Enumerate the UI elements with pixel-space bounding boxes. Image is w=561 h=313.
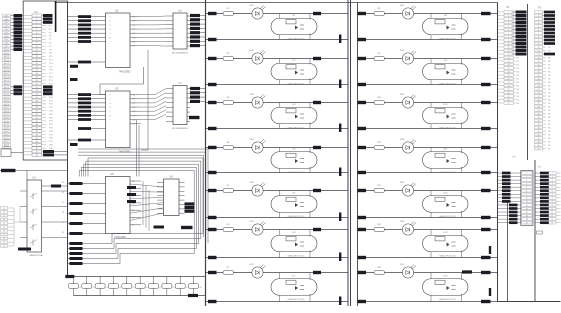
svg-text:Q6: Q6	[133, 41, 135, 43]
svg-text:NC: NC	[517, 68, 520, 70]
svg-text:NC: NC	[548, 61, 551, 63]
svg-text:NC: NC	[517, 96, 520, 98]
svg-text:U5: U5	[110, 172, 114, 176]
svg-text:T8: T8	[3, 238, 5, 240]
svg-text:13: 13	[551, 215, 553, 217]
svg-text:15: 15	[537, 61, 539, 63]
svg-text:DS6: DS6	[400, 221, 405, 223]
svg-text:8: 8	[508, 36, 509, 38]
svg-text:AD26: AD26	[4, 103, 10, 106]
svg-text:T1: T1	[3, 212, 5, 214]
svg-text:R2: R2	[227, 53, 231, 55]
svg-text:AD28: AD28	[4, 110, 10, 113]
svg-text:11: 11	[508, 47, 510, 49]
svg-text:13: 13	[36, 56, 38, 58]
svg-text:27: 27	[537, 103, 539, 105]
svg-text:19: 19	[507, 75, 509, 77]
svg-text:AD18: AD18	[4, 76, 10, 79]
svg-text:C4: C4	[119, 287, 121, 289]
svg-text:36: 36	[537, 134, 539, 136]
svg-text:1: 1	[538, 12, 539, 14]
svg-text:R6: R6	[227, 224, 231, 226]
svg-text:DS2: DS2	[400, 50, 405, 52]
svg-text:13: 13	[507, 54, 509, 56]
svg-text:U8: U8	[169, 176, 173, 179]
svg-text:7: 7	[36, 36, 37, 38]
svg-text:NC: NC	[517, 85, 520, 87]
svg-text:36: 36	[36, 134, 38, 136]
svg-text:D4: D4	[132, 210, 134, 212]
svg-text:17: 17	[537, 68, 539, 70]
svg-text:C2: C2	[92, 287, 94, 289]
svg-text:3: 3	[526, 180, 527, 182]
svg-text:U6: U6	[178, 10, 182, 13]
svg-text:DS1: DS1	[249, 5, 254, 7]
svg-text:S3: S3	[62, 212, 64, 214]
svg-text:5: 5	[110, 33, 111, 35]
svg-text:6: 6	[552, 191, 553, 193]
svg-text:26: 26	[537, 99, 539, 101]
svg-text:16: 16	[507, 64, 509, 66]
svg-text:P30: P30	[49, 117, 53, 119]
svg-text:11: 11	[526, 208, 528, 210]
svg-text:Q2: Q2	[133, 103, 135, 105]
svg-text:P4: P4	[538, 167, 541, 169]
svg-text:NC: NC	[548, 89, 551, 91]
svg-text:9: 9	[508, 40, 509, 42]
svg-text:R13: R13	[377, 224, 382, 226]
svg-text:4: 4	[508, 22, 509, 24]
svg-text:1: 1	[110, 95, 111, 97]
svg-text:P35: P35	[49, 134, 53, 136]
svg-text:DS7: DS7	[400, 264, 405, 266]
svg-text:13: 13	[537, 54, 539, 56]
svg-text:P17: P17	[49, 73, 53, 75]
svg-text:5: 5	[36, 29, 37, 31]
svg-text:1: 1	[552, 173, 553, 175]
svg-text:10: 10	[551, 205, 553, 207]
svg-text:K4: K4	[293, 149, 296, 151]
svg-text:18: 18	[36, 73, 38, 75]
svg-text:P19: P19	[49, 80, 53, 82]
svg-text:AD22: AD22	[4, 89, 10, 92]
svg-text:MMBT2222A: MMBT2222A	[30, 254, 43, 257]
svg-text:P13: P13	[49, 60, 53, 62]
svg-text:Q4: Q4	[133, 33, 135, 35]
svg-text:R3: R3	[227, 97, 231, 99]
svg-text:15: 15	[507, 61, 509, 63]
svg-text:NC: NC	[548, 96, 551, 98]
svg-text:P36: P36	[49, 138, 53, 140]
svg-text:27: 27	[36, 104, 38, 106]
svg-text:AD35: AD35	[4, 133, 10, 136]
svg-text:G6KU-2F-Y3 DC5: G6KU-2F-Y3 DC5	[439, 39, 457, 41]
svg-text:K14: K14	[444, 276, 449, 278]
svg-text:P29: P29	[49, 114, 53, 116]
svg-text:T9: T9	[3, 242, 5, 244]
svg-text:NC: NC	[517, 78, 520, 80]
svg-text:G6KU-2F-Y3 DC5: G6KU-2F-Y3 DC5	[439, 299, 457, 301]
svg-text:NC: NC	[548, 124, 551, 126]
svg-text:18: 18	[507, 71, 509, 73]
svg-text:C6: C6	[145, 287, 147, 289]
svg-text:Q1: Q1	[133, 21, 135, 23]
svg-text:P33: P33	[49, 128, 53, 130]
svg-text:S0: S0	[62, 182, 64, 184]
svg-text:DS3: DS3	[249, 94, 254, 96]
svg-text:P12: P12	[49, 56, 53, 58]
svg-text:AD16: AD16	[4, 69, 10, 72]
svg-text:NC: NC	[517, 92, 520, 94]
svg-text:21: 21	[36, 83, 38, 85]
svg-text:34: 34	[36, 128, 38, 130]
svg-text:MC1413BDR2G: MC1413BDR2G	[172, 53, 188, 55]
svg-text:34: 34	[537, 127, 539, 129]
svg-text:22: 22	[537, 85, 539, 87]
svg-text:R14: R14	[377, 267, 382, 269]
svg-text:3: 3	[110, 25, 111, 27]
svg-text:NC: NC	[548, 141, 551, 143]
svg-text:P24: P24	[49, 97, 53, 99]
svg-text:3: 3	[36, 22, 37, 24]
svg-text:Q0: Q0	[133, 17, 135, 19]
svg-text:P15: P15	[49, 66, 53, 68]
svg-text:NC: NC	[548, 113, 551, 115]
svg-text:P1: P1	[507, 6, 511, 9]
svg-text:P4: P4	[49, 29, 52, 31]
svg-text:K9: K9	[444, 60, 447, 62]
svg-text:40: 40	[537, 148, 539, 150]
svg-text:AD32: AD32	[4, 123, 10, 126]
svg-text:41: 41	[36, 151, 38, 153]
svg-text:P6: P6	[49, 36, 52, 38]
svg-text:2: 2	[36, 19, 37, 21]
svg-text:11: 11	[538, 47, 540, 49]
svg-text:DS2: DS2	[249, 50, 254, 52]
svg-text:NC: NC	[548, 85, 551, 87]
svg-text:S5: S5	[62, 232, 64, 234]
svg-text:S4: S4	[62, 222, 64, 224]
svg-text:P20: P20	[49, 83, 53, 85]
svg-text:P7: P7	[49, 39, 52, 41]
svg-text:7: 7	[110, 119, 111, 121]
svg-text:P31: P31	[49, 121, 53, 123]
svg-text:G6KU-2F-Y3 DC5: G6KU-2F-Y3 DC5	[288, 172, 306, 174]
svg-text:R8: R8	[378, 8, 382, 10]
svg-text:P18: P18	[49, 77, 53, 79]
svg-text:14: 14	[537, 57, 539, 59]
svg-text:NC: NC	[548, 131, 551, 133]
svg-text:23: 23	[507, 89, 509, 91]
svg-text:D3: D3	[132, 203, 134, 205]
svg-text:G6KU-2F-Y3 DC5: G6KU-2F-Y3 DC5	[439, 128, 457, 130]
svg-text:7: 7	[538, 33, 539, 35]
svg-text:AD36: AD36	[4, 137, 10, 140]
svg-text:2: 2	[110, 21, 111, 23]
svg-text:NC: NC	[517, 57, 520, 59]
svg-text:T3: T3	[3, 219, 5, 221]
svg-text:AD23: AD23	[4, 93, 10, 96]
svg-text:G6KU-2F-Y3 DC5: G6KU-2F-Y3 DC5	[439, 172, 457, 174]
svg-text:9: 9	[526, 201, 527, 203]
svg-text:24: 24	[537, 92, 539, 94]
svg-text:K13: K13	[444, 232, 449, 234]
svg-text:NC: NC	[548, 47, 551, 49]
svg-text:DS4: DS4	[400, 139, 405, 141]
svg-text:DS7: DS7	[249, 264, 254, 266]
svg-text:6: 6	[110, 115, 111, 117]
svg-text:NC: NC	[517, 61, 520, 63]
svg-text:2: 2	[552, 176, 553, 178]
svg-text:NC: NC	[548, 78, 551, 80]
svg-text:9: 9	[36, 43, 37, 45]
svg-text:4: 4	[36, 26, 37, 28]
svg-text:20: 20	[36, 80, 38, 82]
svg-text:26: 26	[36, 100, 38, 102]
svg-text:24: 24	[507, 92, 509, 94]
svg-text:T7: T7	[3, 234, 5, 236]
svg-text:6: 6	[526, 191, 527, 193]
svg-text:C7: C7	[159, 287, 161, 289]
svg-text:U1: U1	[34, 10, 38, 14]
svg-text:NC: NC	[548, 145, 551, 147]
svg-text:T5: T5	[3, 227, 5, 229]
svg-text:G6KU-2F-Y3 DC5: G6KU-2F-Y3 DC5	[288, 216, 306, 218]
svg-text:P16: P16	[49, 70, 53, 72]
svg-text:17: 17	[36, 70, 38, 72]
svg-text:22: 22	[507, 85, 509, 87]
svg-text:6: 6	[36, 32, 37, 34]
svg-text:K7: K7	[293, 276, 296, 278]
svg-text:12: 12	[526, 212, 528, 214]
svg-text:6: 6	[538, 29, 539, 31]
svg-text:P2: P2	[539, 7, 543, 10]
svg-text:NC: NC	[517, 99, 520, 101]
svg-text:P39: P39	[49, 148, 53, 150]
svg-text:AD13: AD13	[4, 59, 10, 62]
svg-text:32: 32	[537, 120, 539, 122]
svg-text:1: 1	[110, 17, 111, 19]
svg-text:NC: NC	[548, 92, 551, 94]
svg-text:P25: P25	[49, 100, 53, 102]
svg-text:14: 14	[507, 57, 509, 59]
svg-text:2: 2	[538, 15, 539, 17]
svg-text:DS5: DS5	[249, 182, 254, 184]
svg-text:Q7: Q7	[133, 46, 135, 48]
svg-text:R11: R11	[377, 142, 382, 144]
svg-text:NC: NC	[517, 71, 520, 73]
svg-text:Q3: Q3	[133, 29, 135, 31]
svg-text:P37: P37	[49, 141, 53, 143]
svg-text:7: 7	[508, 33, 509, 35]
svg-text:P3: P3	[49, 26, 52, 28]
svg-text:AD31: AD31	[4, 120, 10, 123]
svg-text:1: 1	[508, 12, 509, 14]
svg-text:29: 29	[537, 110, 539, 112]
svg-text:11: 11	[551, 208, 553, 210]
svg-text:AD20: AD20	[4, 82, 10, 85]
svg-text:AD15: AD15	[4, 65, 10, 68]
svg-text:21: 21	[537, 82, 539, 84]
svg-text:T10: T10	[2, 246, 5, 248]
svg-text:30: 30	[537, 113, 539, 115]
svg-text:R12: R12	[377, 185, 382, 187]
svg-text:P8: P8	[49, 43, 52, 45]
svg-text:Q5: Q5	[133, 37, 135, 39]
svg-text:P10: P10	[49, 49, 53, 51]
svg-text:K12: K12	[444, 193, 449, 195]
svg-text:12: 12	[537, 50, 539, 52]
svg-text:K1: K1	[293, 15, 296, 17]
svg-text:2: 2	[526, 176, 527, 178]
svg-text:K10: K10	[444, 104, 449, 106]
svg-text:Q1: Q1	[133, 99, 135, 101]
svg-text:DS3: DS3	[400, 94, 405, 96]
svg-text:NC: NC	[548, 99, 551, 101]
svg-text:31: 31	[537, 117, 539, 119]
svg-text:14: 14	[526, 219, 528, 221]
svg-text:AD24: AD24	[4, 96, 10, 99]
svg-text:12: 12	[551, 212, 553, 214]
svg-text:NC: NC	[517, 64, 520, 66]
svg-text:3: 3	[552, 180, 553, 182]
svg-text:15: 15	[551, 223, 553, 225]
svg-text:74HC165D: 74HC165D	[114, 236, 126, 239]
svg-text:NC: NC	[517, 75, 520, 77]
svg-text:8: 8	[36, 39, 37, 41]
svg-text:5: 5	[526, 187, 527, 189]
svg-text:Q4: Q4	[133, 111, 135, 113]
svg-text:NC: NC	[548, 64, 551, 66]
svg-text:K2: K2	[293, 60, 296, 62]
svg-text:14: 14	[551, 219, 553, 221]
svg-text:P28: P28	[49, 111, 53, 113]
svg-text:P34: P34	[49, 131, 53, 133]
svg-text:Q6: Q6	[133, 119, 135, 121]
svg-text:10: 10	[36, 46, 38, 48]
svg-text:AD30: AD30	[4, 116, 10, 119]
svg-text:DS6: DS6	[249, 221, 254, 223]
svg-text:AD19: AD19	[4, 79, 10, 82]
svg-text:U3: U3	[115, 87, 119, 91]
svg-text:R1: R1	[227, 8, 231, 10]
svg-text:35: 35	[36, 131, 38, 133]
svg-text:9: 9	[552, 201, 553, 203]
svg-text:NC: NC	[548, 75, 551, 77]
svg-text:38: 38	[537, 141, 539, 143]
svg-text:R7: R7	[227, 267, 231, 269]
svg-text:7: 7	[110, 41, 111, 43]
svg-text:U9: U9	[32, 177, 36, 180]
svg-text:29: 29	[36, 111, 38, 113]
svg-text:4: 4	[526, 183, 527, 185]
svg-text:5: 5	[508, 26, 509, 28]
svg-text:U2: U2	[115, 9, 119, 13]
svg-text:S2: S2	[62, 202, 64, 204]
svg-text:DS4: DS4	[249, 139, 254, 141]
svg-text:19: 19	[537, 75, 539, 77]
svg-text:6: 6	[110, 37, 111, 39]
svg-text:Q2: Q2	[133, 25, 135, 27]
svg-text:13: 13	[526, 215, 528, 217]
svg-text:17: 17	[507, 68, 509, 70]
svg-text:2: 2	[508, 15, 509, 17]
svg-text:28: 28	[537, 106, 539, 108]
svg-text:NC: NC	[548, 110, 551, 112]
svg-text:G6KU-2F-Y3 DC5: G6KU-2F-Y3 DC5	[288, 256, 306, 258]
svg-text:D6: D6	[132, 225, 134, 227]
svg-text:37: 37	[537, 138, 539, 140]
svg-text:NC: NC	[548, 138, 551, 140]
svg-text:4: 4	[110, 107, 111, 109]
svg-text:21: 21	[507, 82, 509, 84]
svg-text:25: 25	[507, 96, 509, 98]
svg-text:AD27: AD27	[4, 106, 10, 109]
svg-text:G6KU-2F-Y3 DC5: G6KU-2F-Y3 DC5	[439, 256, 457, 258]
svg-text:20: 20	[537, 78, 539, 80]
svg-text:4: 4	[552, 183, 553, 185]
svg-text:5: 5	[552, 187, 553, 189]
svg-text:AD25: AD25	[4, 99, 10, 102]
svg-text:AD37: AD37	[4, 140, 10, 143]
svg-text:Q0: Q0	[133, 95, 135, 97]
svg-text:NC: NC	[517, 82, 520, 84]
svg-text:42: 42	[36, 155, 38, 157]
svg-text:G6KU-2F-Y3 DC5: G6KU-2F-Y3 DC5	[288, 39, 306, 41]
svg-text:AD12: AD12	[4, 55, 10, 58]
svg-text:T0: T0	[3, 208, 5, 210]
svg-text:3: 3	[110, 103, 111, 105]
svg-text:P5: P5	[49, 32, 52, 34]
svg-text:AD14: AD14	[4, 62, 10, 65]
svg-text:7: 7	[552, 194, 553, 196]
svg-text:38: 38	[36, 141, 38, 143]
svg-text:35: 35	[537, 131, 539, 133]
svg-text:K5: K5	[293, 193, 296, 195]
svg-text:NC: NC	[548, 103, 551, 105]
svg-text:C9: C9	[186, 287, 188, 289]
svg-text:NC: NC	[548, 71, 551, 73]
svg-text:R5: R5	[227, 185, 231, 187]
svg-text:C3: C3	[105, 287, 107, 289]
svg-text:30: 30	[36, 114, 38, 116]
svg-text:12: 12	[36, 53, 38, 55]
svg-text:P32: P32	[49, 124, 53, 126]
svg-text:3: 3	[508, 19, 509, 21]
svg-text:NC: NC	[548, 57, 551, 59]
svg-text:NC: NC	[548, 134, 551, 136]
svg-text:K11: K11	[444, 149, 449, 151]
svg-text:11: 11	[36, 49, 38, 51]
svg-text:K6: K6	[293, 232, 296, 234]
svg-text:26: 26	[507, 99, 509, 101]
svg-text:16: 16	[537, 64, 539, 66]
svg-text:4: 4	[538, 22, 539, 24]
svg-text:5: 5	[110, 111, 111, 113]
svg-text:S1: S1	[62, 192, 64, 194]
svg-text:T2: T2	[3, 215, 5, 217]
svg-text:23: 23	[537, 89, 539, 91]
svg-text:D0: D0	[132, 181, 134, 183]
svg-text:15: 15	[526, 223, 528, 225]
svg-text:2: 2	[110, 99, 111, 101]
svg-text:1: 1	[526, 173, 527, 175]
svg-text:P14: P14	[49, 63, 53, 65]
svg-text:16: 16	[36, 66, 38, 68]
svg-text:P26: P26	[49, 104, 53, 106]
svg-text:10: 10	[526, 205, 528, 207]
svg-text:Q7: Q7	[133, 124, 135, 126]
